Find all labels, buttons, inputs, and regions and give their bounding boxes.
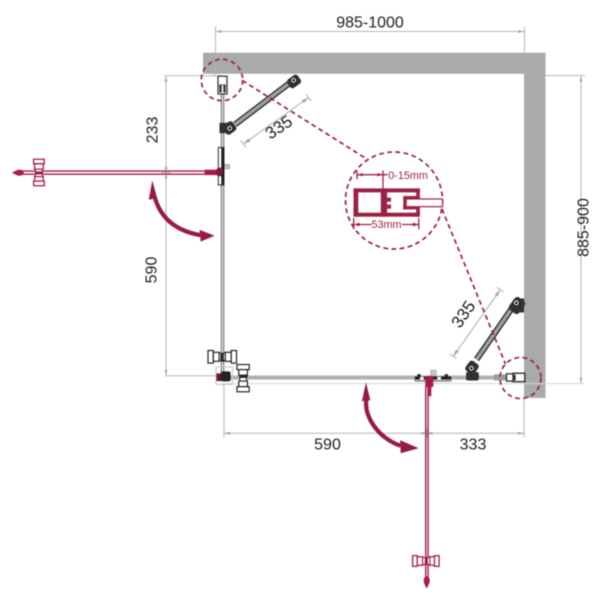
svg-text:233: 233 <box>145 117 162 144</box>
svg-text:590: 590 <box>314 437 341 454</box>
svg-text:985-1000: 985-1000 <box>336 15 404 32</box>
svg-text:53mm: 53mm <box>372 219 402 231</box>
svg-text:0-15mm: 0-15mm <box>388 170 428 182</box>
svg-text:885-900: 885-900 <box>576 198 593 257</box>
svg-text:333: 333 <box>460 437 487 454</box>
svg-text:590: 590 <box>144 257 161 284</box>
